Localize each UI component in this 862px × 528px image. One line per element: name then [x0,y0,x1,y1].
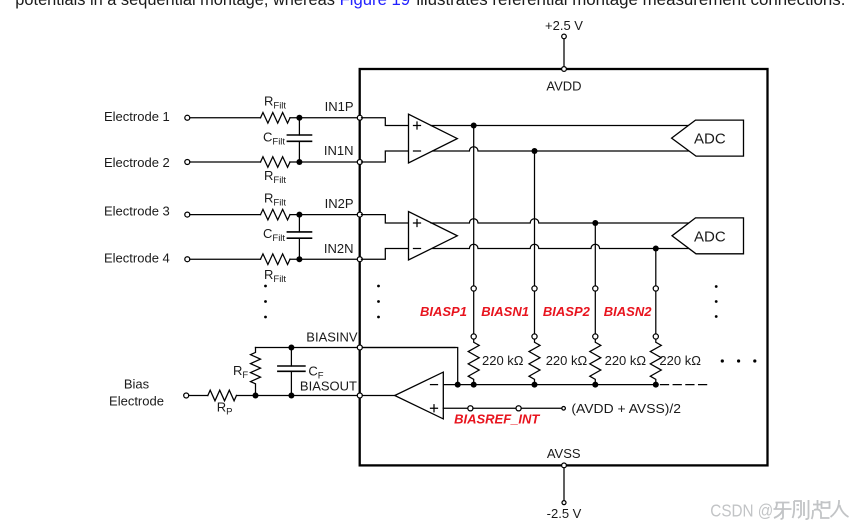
resistor RFilt row1 [261,113,291,124]
svg-text:ADC: ADC [694,130,726,147]
capacitor CFilt 2 plates [287,232,311,238]
node BIASN2 tap dot [653,246,659,252]
svg-text:Electrode 1: Electrode 1 [104,109,170,124]
pin BIASOUT circle [357,393,362,398]
svg-text:+2.5 V: +2.5 V [545,18,583,33]
U2 plus sign [414,220,421,227]
capacitor CFilt 2 stem bottom [298,238,300,259]
capacitor CFilt 1 plates [287,135,311,141]
wire switch to reference terminal [521,407,562,409]
ellipsis inside box left [377,285,380,288]
switch BIASP1 top circle [471,286,476,291]
svg-text:IN2P: IN2P [325,196,354,211]
junction dot BIASOUT-RF [253,393,259,399]
wire RFilt1 to IN1P node [290,117,357,119]
pin IN1P circle [357,115,362,120]
junction dot rail R1 [471,382,477,388]
junction dot BIASOUT-CF [288,393,294,399]
svg-text:Electrode 2: Electrode 2 [104,155,170,170]
switch BIASN2 top circle [653,286,658,291]
svg-text:Figure 19: Figure 19 [340,0,411,9]
svg-text:-2.5 V: -2.5 V [547,506,582,521]
resistor 220k #3 [590,339,601,385]
wire RFilt4 to IN2N node [290,258,357,260]
wire RFilt3 to IN2P node [290,214,357,216]
pin IN2N circle [357,257,362,262]
wire BIASN2 vertical [655,249,657,286]
watermark hanzi (drawn strokes) [774,500,849,519]
svg-text:Electrode 3: Electrode 3 [104,204,170,219]
node IN1N junction dot [296,159,302,165]
svg-text:BIASN2: BIASN2 [604,304,652,319]
wire IN1P pin to opamp1 plus input [362,118,409,126]
AVSS supply wire [563,468,565,501]
Bias Electrode terminal [184,393,189,398]
junction dot rail R4 [653,382,659,388]
node BIASP2 tap dot [592,220,598,226]
U1 plus sign [414,122,421,129]
svg-text:(AVDD + AVSS)/2: (AVDD + AVSS)/2 [571,401,681,416]
resistor 220k #2 [529,339,540,385]
chip boundary box [360,69,768,465]
svg-text:CSDN @: CSDN @ [710,501,773,521]
resistor RF vertical [251,348,261,396]
svg-text:potentials in a sequential mon: potentials in a sequential montage, wher… [15,0,335,9]
svg-text:Electrode: Electrode [109,394,164,409]
switch BIASN2 blade [655,291,657,334]
switch BIASN1 top circle [532,286,537,291]
Electrode 1 terminal [185,115,190,120]
AVDD pin circle [562,67,567,72]
svg-text:BIASINV: BIASINV [306,330,358,345]
svg-text:BIASREF_INT: BIASREF_INT [454,412,540,427]
wire BIASINV inside box to rail [360,348,458,385]
switch BIASREF circle 2 [516,406,521,411]
node IN2N junction dot [296,256,302,262]
junction dot rail-BIASINV [455,382,461,388]
svg-text:BIASP1: BIASP1 [420,304,467,319]
switch BIASN2 bottom circle [653,334,658,339]
node IN2P junction dot [296,212,302,218]
resistor 220k #4 [650,339,661,385]
svg-text:Bias: Bias [124,377,150,392]
svg-text:220 kΩ: 220 kΩ [482,353,524,368]
svg-text:IN2N: IN2N [324,241,354,256]
pin BIASINV circle [357,345,362,350]
svg-text:220 kΩ: 220 kΩ [605,353,647,368]
svg-text:IN1N: IN1N [324,143,354,158]
switch BIASREF circle 1 [468,406,473,411]
wire electrode3 to RFilt [190,214,261,216]
wire BIASOUT line [237,395,395,397]
switch BIASP2 bottom circle [593,334,598,339]
-2.5 V terminal circle [562,501,566,505]
junction dot rail R3 [592,382,598,388]
U1 minus sign [414,150,421,152]
node IN1P junction dot [296,115,302,121]
wire bias electrode to RP [189,395,208,397]
wire U1 bottom output to ADC1 (hop over BIASP1 line) [433,147,689,151]
ellipsis right channels [715,285,718,288]
svg-text:Electrode 4: Electrode 4 [104,251,170,266]
resistor RFilt row3 [261,209,291,220]
svg-text:BIASP2: BIASP2 [543,304,591,319]
svg-text:illustrates referential montag: illustrates referential montage measurem… [416,0,845,9]
U3 minus sign [431,384,438,386]
wire summing rail [443,384,658,386]
resistor RFilt row2 [261,157,291,168]
+2.5 V terminal circle [562,34,567,39]
wire electrode1 to RFilt [190,117,261,119]
junction dot BIASINV-CF [288,345,294,351]
wire electrode4 to RFilt [190,258,261,260]
resistor RFilt row4 [261,254,291,265]
wire summing rail dashed continuation [661,384,711,386]
svg-text:BIASOUT: BIASOUT [300,378,357,393]
ADC block 2 [672,218,744,254]
ellipsis right of 220k resistors [721,359,724,362]
svg-text:IN1P: IN1P [325,99,354,114]
switch BIASP2 blade [594,291,596,334]
wire U1 top output to ADC1 [431,125,689,127]
Electrode 3 terminal [185,212,190,217]
wire BIASINV line [256,347,456,349]
wire BIASP2 vertical [594,223,596,286]
capacitor CF stem top [290,348,292,367]
wire electrode2 to RFilt [190,161,261,163]
AVSS pin circle [562,463,567,468]
wire IN1N pin to opamp1 minus input [362,151,409,162]
switch BIASP2 top circle [593,286,598,291]
watermark CSDN text [710,501,773,521]
pin IN2P circle [357,212,362,217]
U3 plus sign [431,405,438,412]
ADC block 1 [672,120,744,156]
top caption text [15,0,845,9]
resistor 220k #1 [468,339,479,385]
svg-text:AVDD: AVDD [546,79,581,94]
wire U2 bottom output to ADC2 (hops over BIASP1 BIASN1 BIASP2) [433,244,689,248]
U2 minus sign [414,248,421,250]
wire IN2P pin to opamp2 plus input [362,215,409,223]
wire switch middle segment [473,407,516,409]
Electrode 2 terminal [185,160,190,165]
capacitor CFilt 1 stem bottom [298,141,300,162]
op-amp U1 (PGA ch1) [409,114,458,163]
junction dot rail R2 [532,382,538,388]
switch BIASP1 blade [473,291,475,334]
wire BIASN1 vertical [534,151,536,286]
+2.5 V supply wire [563,39,565,68]
capacitor CF stem bottom [290,371,292,395]
Electrode 4 terminal [185,257,190,262]
terminal (AVDD+AVSS)/2 small circle [562,407,566,411]
op-amp U2 (PGA ch2) [409,212,458,261]
wire U3 plus input to switch [443,407,468,409]
ellipsis below RFilt column [264,285,267,288]
svg-text:BIASN1: BIASN1 [481,304,529,319]
node BIASP1 tap dot [471,123,477,129]
ellipsis dots group [264,285,756,363]
switch BIASN1 bottom circle [532,334,537,339]
pin IN1N circle [357,160,362,165]
capacitor CFilt 1 stem top [298,118,300,135]
capacitor CF plates [278,366,305,371]
wire RFilt2 to IN1N node [290,161,357,163]
wire IN2N pin to opamp2 minus input [362,249,409,260]
switch BIASP1 bottom circle [471,334,476,339]
switch BIASN1 blade [534,291,536,334]
svg-text:AVSS: AVSS [547,446,581,461]
capacitor CFilt 2 stem top [298,215,300,232]
svg-text:220 kΩ: 220 kΩ [659,353,701,368]
svg-text:ADC: ADC [694,229,726,246]
wire U2 top output to ADC2 (hops over BIASP1 BIASN1) [431,219,689,223]
wire BIASP1 vertical [473,126,475,286]
op-amp U3 (bias amplifier) [395,372,444,419]
node BIASN1 tap dot [532,148,538,154]
svg-text:220 kΩ: 220 kΩ [546,353,588,368]
resistor RP [208,390,237,401]
